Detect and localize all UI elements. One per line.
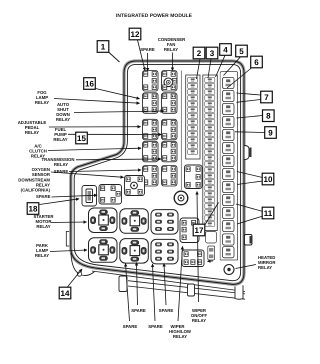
mini fuse B1 (205, 78, 215, 83)
fuse holder column C (223, 77, 235, 231)
svg-text:14: 14 (61, 289, 70, 298)
relay grid r2c1 (143, 93, 159, 114)
module outline outer black line (71, 61, 244, 284)
svg-text:SPARE: SPARE (123, 324, 138, 329)
leader from callout 11 lower (237, 216, 263, 224)
callout 15 (76, 132, 88, 144)
fuse F11 (223, 207, 235, 218)
fuse F5 (223, 129, 235, 140)
relay grid r3c2 (162, 119, 178, 140)
bottom left corner hole (77, 272, 81, 276)
relay below column A (185, 165, 203, 189)
svg-text:18: 18 (29, 205, 38, 214)
leader from callout 7 upper (237, 93, 261, 95)
svg-text:17: 17 (195, 226, 204, 235)
oxygen sensor relay left (99, 185, 122, 205)
mini fuse column B (205, 78, 215, 227)
mini fuse A1 (188, 78, 198, 83)
svg-text:6: 6 (254, 58, 259, 67)
fuse F10 (223, 194, 235, 205)
relay grid r1c1 (143, 71, 159, 92)
callout 18 (27, 203, 39, 215)
mini fuse B2 (205, 84, 215, 89)
arrow into wiper on/off relay (208, 260, 214, 262)
leader wiper high/low (178, 247, 183, 322)
leader from callout 11 upper (236, 204, 263, 212)
svg-text:AUTOSHUTDOWNRELAY: AUTOSHUTDOWNRELAY (56, 102, 70, 122)
svg-text:16: 16 (85, 80, 94, 89)
fuse F8 (223, 168, 235, 179)
leader from callout 2 (197, 59, 201, 79)
mini fuse B13 (205, 150, 215, 155)
big relay r2c3 (151, 239, 178, 264)
mini fuse B20 (205, 192, 215, 197)
fuse block column A enclosure (186, 75, 200, 159)
mini fuse A9 (188, 126, 198, 131)
leader from callout 10 upper (237, 172, 263, 178)
mini fuse B3 (205, 90, 215, 95)
leader from park lamp relay (50, 250, 87, 252)
mini fuse B19 (205, 186, 215, 191)
leader bottom spare 3 (126, 264, 130, 322)
corner foot (71, 253, 95, 276)
callout 4 (220, 44, 232, 56)
small connector block left (82, 186, 97, 207)
mini fuse A2 (188, 84, 198, 89)
leader bottom spare 2 (164, 264, 166, 306)
callout 17 (193, 224, 205, 236)
relay grid r4c2 (162, 141, 178, 162)
callout 3 (206, 47, 218, 59)
fuse F14 (223, 247, 235, 258)
fuse F9 (223, 181, 235, 192)
leader from adjustable pedal relay (49, 126, 141, 128)
svg-text:12: 12 (131, 30, 140, 39)
fuse F12 (223, 220, 235, 231)
leader from auto shut down relay (74, 111, 164, 113)
leader bottom spare 4 (153, 264, 156, 321)
leader from transmission relay (76, 158, 161, 161)
mini fuse A8 (188, 120, 198, 125)
mini fuse column A (188, 78, 198, 155)
big relay r2c2 (120, 239, 149, 264)
mini fuse A11 (188, 138, 198, 143)
fuse F1 (223, 77, 235, 88)
leader from callout 17 (205, 203, 219, 226)
relay grid r4c1 (143, 141, 159, 162)
leader from fog lamp relay (54, 99, 140, 104)
mini fuse B22 (205, 204, 215, 209)
callout 16 (84, 78, 96, 90)
fuse F7 (223, 155, 235, 166)
leader from callout 1 (109, 52, 120, 62)
svg-text:INTEGRATED POWER MODULE: INTEGRATED POWER MODULE (116, 13, 193, 19)
grommet circle (174, 191, 188, 205)
mini fuse B10 (205, 132, 215, 137)
leader from oxygen sensor relay label (51, 172, 124, 177)
callout 6 (251, 56, 263, 68)
leader wiper on/off (197, 192, 199, 303)
leader from callout 5 (224, 57, 241, 76)
leader bottom spare 1 (137, 263, 138, 306)
interior divider line (180, 71, 182, 191)
svg-text:5: 5 (239, 47, 244, 56)
mini fuse A6 (188, 108, 198, 113)
big relay r1c1 (89, 208, 118, 233)
fuse F13 (223, 234, 235, 245)
fuse channel divider (219, 73, 221, 260)
callout 9 (265, 127, 277, 139)
leader from callout 14 (67, 269, 82, 288)
svg-text:SPARE: SPARE (159, 308, 174, 313)
svg-text:1: 1 (101, 43, 106, 52)
leader from callout 7 lower (237, 100, 261, 103)
leader from callout 10 lower (237, 181, 263, 185)
mini fuse B5 (205, 102, 215, 107)
svg-text:3: 3 (210, 49, 215, 58)
fuse block column B enclosure (203, 75, 218, 231)
leader from callout 4 (216, 55, 226, 77)
svg-text:SPARE: SPARE (148, 324, 163, 329)
fuse F4 (223, 116, 235, 127)
svg-text:2: 2 (197, 49, 202, 58)
callout 1 (97, 41, 109, 53)
fuse F6 (223, 142, 235, 153)
svg-text:9: 9 (268, 129, 273, 138)
relay grid r5c2 (162, 166, 178, 187)
svg-text:SPARE: SPARE (131, 308, 146, 313)
mini fuse A10 (188, 132, 198, 137)
left edge tab (66, 232, 72, 247)
heated mirror relay circle (224, 265, 234, 275)
leader from callout 12 (138, 40, 146, 71)
mini fuse B12 (205, 144, 215, 149)
bottom skirt line (92, 271, 245, 292)
leader from starter motor relay (51, 221, 87, 224)
big relay r1c3 (151, 210, 178, 235)
mini fuse A13 (188, 150, 198, 155)
module outline outer (71, 61, 244, 284)
callout 8 (263, 110, 275, 122)
mini fuse B16 (205, 168, 215, 173)
mini fuse B4 (205, 96, 215, 101)
blank cell below column B (206, 232, 217, 244)
right edge tab lower (245, 235, 253, 246)
mini fuse A3 (188, 90, 198, 95)
fuse F3 (223, 103, 235, 114)
callout 11 (262, 207, 274, 219)
callout 7 (261, 91, 273, 103)
leader from callout 3 (208, 59, 211, 78)
mini fuse B9 (205, 126, 215, 131)
mini fuse B25 (205, 222, 215, 227)
svg-text:4: 4 (223, 46, 228, 55)
mini fuse B8 (205, 120, 215, 125)
callout 12 (129, 28, 141, 40)
mini fuse B14 (205, 156, 215, 161)
oxygen sensor relay right (125, 176, 145, 196)
big relay r2c1 (89, 238, 118, 262)
mini fuse B17 (205, 174, 215, 179)
leader from SPARE top (147, 53, 149, 71)
leader from callout 6 (227, 68, 252, 89)
leader from callout 16 (96, 89, 140, 99)
svg-text:10: 10 (264, 175, 273, 184)
right edge tab upper (245, 146, 250, 160)
mini fuse B18 (205, 180, 215, 185)
fuse wall line (220, 72, 237, 261)
mini fuse B21 (205, 198, 215, 203)
leader from heated mirror relay (236, 265, 257, 269)
relay grid r2c2 (162, 93, 178, 114)
callout 5 (236, 45, 248, 57)
svg-text:SPARE: SPARE (140, 47, 155, 52)
mini fuse B24 (205, 216, 215, 221)
fuse F2 (223, 90, 235, 101)
bottom skirt bar (128, 281, 245, 300)
svg-text:FUELPUMPRELAY: FUELPUMPRELAY (53, 127, 67, 142)
mini fuse B7 (205, 114, 215, 119)
bar mid tab (188, 284, 195, 296)
mini fuse A5 (188, 102, 198, 107)
callout 14 (59, 287, 71, 299)
mini fuse A7 (188, 114, 198, 119)
leader from callout 18 (40, 199, 80, 205)
leader from spare left (69, 170, 141, 172)
mini fuse B23 (205, 210, 215, 215)
mini fuse B15 (205, 162, 215, 167)
svg-text:11: 11 (264, 209, 273, 218)
relay grid r3c1 (143, 119, 159, 140)
callout 2 (193, 47, 205, 59)
small fuse stack right of wiper relay (208, 246, 215, 260)
leader from condenser fan relay (172, 53, 174, 71)
leader from fuel pump relay (68, 133, 162, 135)
callout 10 (262, 173, 274, 185)
svg-text:SPARE: SPARE (36, 194, 51, 199)
svg-text:15: 15 (77, 134, 86, 143)
leader from callout 9 (235, 131, 265, 134)
svg-text:7: 7 (264, 93, 269, 102)
big relay r1c2 (120, 209, 149, 234)
wiper high/low relay (180, 218, 199, 243)
mini fuse A4 (188, 96, 198, 101)
relay grid r5c1 (143, 166, 159, 187)
wiper on/off relay (182, 250, 204, 267)
leader from callout 8 (237, 116, 263, 119)
svg-text:PARKLAMPRELAY: PARKLAMPRELAY (35, 243, 49, 258)
relay grid r1c2 condenser fan (162, 71, 178, 92)
svg-text:WIPERON/OFFRELAY: WIPERON/OFFRELAY (191, 308, 208, 323)
leader from spare 2 (52, 195, 98, 197)
module outline inner black line (74, 64, 240, 280)
mini fuse B11 (205, 138, 215, 143)
mini fuse B6 (205, 108, 215, 113)
svg-text:SPARE: SPARE (54, 169, 69, 174)
bar right skirt (235, 285, 243, 299)
bar left tab (119, 276, 127, 292)
mini fuse A12 (188, 144, 198, 149)
leader from a/c clutch relay (48, 148, 141, 150)
svg-text:8: 8 (266, 112, 271, 121)
